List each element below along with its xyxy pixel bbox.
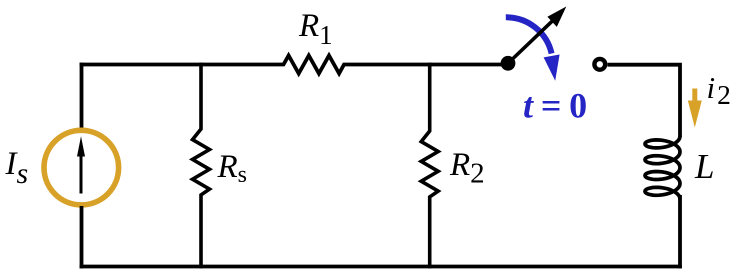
i2 current arrow head <box>688 101 702 128</box>
i2 current arrow shaft <box>692 89 697 104</box>
switch arm <box>508 21 553 64</box>
wire R2 branch with resistor R2 zigzag <box>421 63 438 269</box>
current source Is circle <box>44 130 119 205</box>
current source arrow head <box>77 136 85 156</box>
svg-text:R2: R2 <box>449 147 485 190</box>
wire bottom <box>80 265 682 269</box>
switch open terminal circle <box>594 59 605 70</box>
svg-text:Rs: Rs <box>217 149 248 188</box>
svg-text:i2: i2 <box>707 70 731 110</box>
svg-text:L: L <box>694 147 714 186</box>
switch action blue arc <box>506 17 552 53</box>
switch node dot <box>501 56 516 71</box>
switch arm arrow head <box>547 7 566 27</box>
switch blue arrow head <box>544 55 560 81</box>
svg-text:Is: Is <box>5 146 29 190</box>
wire left vertical lower <box>80 206 84 268</box>
wire left vertical upper <box>80 63 84 129</box>
wire top right <box>608 65 681 137</box>
current source arrow shaft <box>80 155 83 194</box>
wire right vertical lower <box>678 195 682 268</box>
wire top with resistor R1 zigzag inline <box>82 56 504 74</box>
inductor L coil <box>645 136 680 199</box>
svg-text:R1: R1 <box>298 8 333 50</box>
wire Rs branch with resistor Rs zigzag <box>193 63 210 269</box>
svg-text:t = 0: t = 0 <box>523 86 587 126</box>
